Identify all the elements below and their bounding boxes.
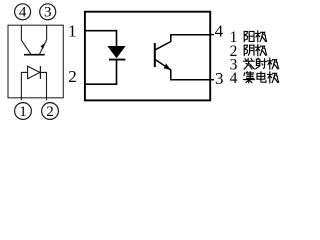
LED cathode bar (109, 59, 125, 61)
wire LED cathode to pin 2 (85, 60, 116, 85)
phototransistor collector wire to pin 4 (156, 35, 211, 50)
schematic box (optocoupler symbol) (85, 12, 210, 101)
legend row 2: yin ji (cathode) (244, 45, 254, 55)
phototransistor inside package: base bar (24, 54, 45, 56)
svg-text:4: 4 (215, 21, 224, 40)
circled pin number 2 (42, 103, 59, 121)
svg-text:4: 4 (230, 70, 238, 87)
circled pin number 4 (15, 4, 31, 21)
photodiode inside package: horizontal link and leads to pins 1,2 (21, 72, 46, 100)
svg-text:3: 3 (44, 5, 52, 21)
phototransistor base bar (schematic) (154, 43, 156, 67)
svg-text:4: 4 (19, 5, 27, 21)
package outline (left DIP box) (8, 25, 63, 98)
circled pin number 1 (15, 103, 32, 121)
circled pin number 3 (40, 4, 56, 21)
legend row 3: fa she ji (emitter) (244, 58, 255, 69)
svg-text:2: 2 (68, 67, 77, 86)
svg-text:1: 1 (68, 21, 77, 40)
svg-text:3: 3 (215, 69, 224, 88)
wire pin 1 to LED anode (85, 31, 116, 47)
pin 4 stub (210, 34, 214, 36)
phototransistor inside package: collector lead (pin 4) (21, 25, 31, 54)
phototransistor emitter wire with arrow to pin 3 (156, 60, 211, 80)
LED triangle (anode) (108, 46, 125, 58)
svg-text:2: 2 (46, 104, 54, 120)
legend row 4: ji dian ji (collector) (244, 72, 255, 83)
phototransistor inside package: emitter lead with arrow (pin 3) (40, 25, 47, 54)
legend row 1: yang ji (anode) (244, 31, 254, 41)
photodiode inside package: diode triangle (28, 66, 40, 79)
pin 3 stub (210, 79, 214, 81)
svg-text:1: 1 (19, 104, 27, 120)
photodiode inside package: cathode bar (39, 66, 41, 79)
